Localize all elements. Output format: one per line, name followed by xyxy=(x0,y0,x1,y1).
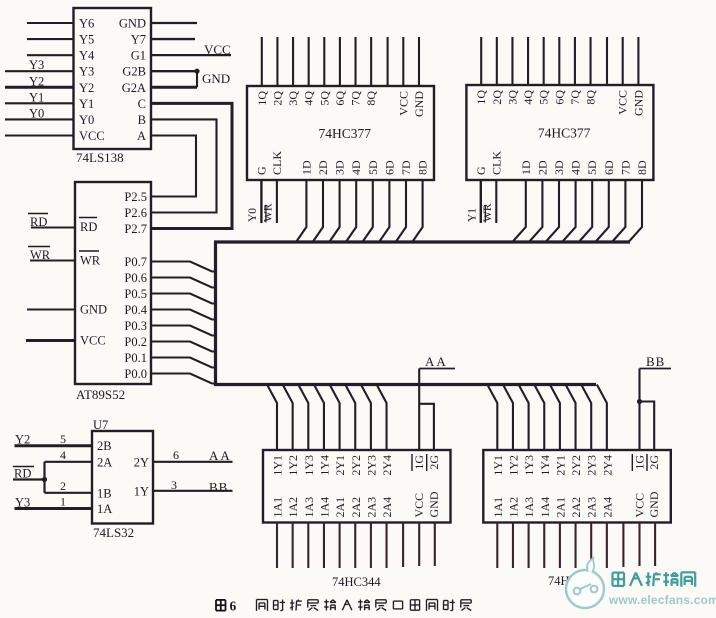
wire 5Q output stub 74HC377-b xyxy=(543,37,545,85)
wire P0.7 to bus xyxy=(151,262,216,272)
wire P0.3 to bus xyxy=(151,326,216,336)
svg-text:G2A: G2A xyxy=(122,81,146,95)
node RD xyxy=(28,214,48,230)
svg-text:2Y3: 2Y3 xyxy=(364,455,378,476)
svg-text:Y1: Y1 xyxy=(466,208,478,222)
svg-text:2A3: 2A3 xyxy=(585,497,599,518)
svg-text:2A1: 2A1 xyxy=(553,497,567,518)
wire 3Q output stub 74HC377-a xyxy=(292,37,294,86)
svg-text:2Y1: 2Y1 xyxy=(553,455,567,476)
svg-text:2: 2 xyxy=(60,479,66,493)
wire P0.5 to bus xyxy=(151,294,216,304)
wire G2B-G2A tie xyxy=(196,71,198,87)
wire GND output stub 74HC377-b xyxy=(637,37,639,85)
wire 4Q output stub 74HC377-b xyxy=(527,37,529,85)
wire WR input xyxy=(30,259,75,261)
svg-text:WR: WR xyxy=(482,203,494,222)
wire 1Y2 from bus 74HC244-b xyxy=(503,385,513,451)
wire VCC stub 74HC244-a xyxy=(418,523,420,567)
svg-text:G: G xyxy=(474,166,488,175)
wire 2A3 stub 74HC244-a xyxy=(370,523,372,569)
svg-text:1A4: 1A4 xyxy=(538,497,552,518)
wire P0.1 to bus xyxy=(151,358,216,368)
node BB at U7 xyxy=(209,480,228,495)
svg-text:VCC: VCC xyxy=(79,129,105,143)
node VCC xyxy=(204,42,231,57)
buffer U6 74HC244 xyxy=(483,450,671,523)
svg-text:74LS32: 74LS32 xyxy=(93,525,134,540)
svg-text:2Q: 2Q xyxy=(270,91,284,106)
svg-text:1Q: 1Q xyxy=(474,90,488,105)
wire 2Y3 from bus 74HC244-a xyxy=(361,385,371,451)
svg-text:2D: 2D xyxy=(316,160,330,175)
wire RD branch vertical xyxy=(43,462,45,493)
wire NC stub 74HC377-b xyxy=(606,37,608,85)
svg-text:4Q: 4Q xyxy=(302,91,316,106)
node Y2 xyxy=(29,74,44,88)
wire 1A1 stub 74HC244-b xyxy=(496,523,498,569)
wire 3D to bus 74HC377-b xyxy=(546,180,559,242)
svg-text:P0.2: P0.2 xyxy=(124,335,147,349)
svg-text:2A1: 2A1 xyxy=(333,497,347,518)
svg-text:3: 3 xyxy=(171,478,177,492)
svg-text:1Y3: 1Y3 xyxy=(302,455,316,476)
svg-text:Y4: Y4 xyxy=(79,49,95,63)
wire 1Y4 from bus 74HC244-b xyxy=(534,385,544,451)
watermark url xyxy=(608,593,716,607)
svg-text:1A1: 1A1 xyxy=(491,497,505,518)
wire 6D to bus 74HC377-a xyxy=(379,180,389,242)
wire G input 74HC377-b xyxy=(480,180,482,223)
label 74HC344 a xyxy=(332,575,381,589)
svg-text:1Y1: 1Y1 xyxy=(491,455,505,476)
wire 2A2 stub 74HC244-b xyxy=(574,523,576,569)
svg-text:1Q: 1Q xyxy=(255,91,269,106)
svg-text:1: 1 xyxy=(60,495,66,509)
wire 2A4 stub 74HC244-b xyxy=(606,523,608,569)
wire 1A1 stub 74HC244-a xyxy=(276,523,278,569)
svg-text:6D: 6D xyxy=(602,160,616,175)
svg-text:Y6: Y6 xyxy=(79,17,94,31)
svg-text:2Y4: 2Y4 xyxy=(380,455,394,476)
svg-text:BB: BB xyxy=(209,480,228,495)
wire 2A1 stub 74HC244-b xyxy=(559,523,561,569)
or-gate U7 74LS32 xyxy=(92,431,153,524)
svg-text:4D: 4D xyxy=(349,160,363,175)
wire 5D to bus 74HC377-b xyxy=(579,180,592,242)
svg-text:Y5: Y5 xyxy=(79,33,94,47)
node Y3 at U7 xyxy=(15,496,30,510)
wire GND pin 74LS138 xyxy=(151,22,197,24)
svg-text:P0.5: P0.5 xyxy=(124,287,147,301)
wire 2Y1 from bus 74HC244-a xyxy=(330,385,340,451)
bus left edge xyxy=(214,242,217,386)
wire 2A1 stub 74HC244-a xyxy=(339,523,341,569)
svg-text:GND: GND xyxy=(202,71,230,86)
svg-text:GND: GND xyxy=(631,90,645,116)
wire 2Y2 from bus 74HC244-a xyxy=(345,385,355,451)
svg-text:Y1: Y1 xyxy=(29,90,44,104)
label 74LS138 xyxy=(76,150,124,165)
wire VCC output stub 74HC377-b xyxy=(622,37,624,85)
svg-text:2A2: 2A2 xyxy=(569,497,583,518)
svg-text:AT89S52: AT89S52 xyxy=(76,387,125,402)
wire 7D to bus 74HC377-b xyxy=(612,180,625,242)
wire Y2 to 2B pin 5 xyxy=(15,444,93,447)
wire 8D to bus 74HC377-b xyxy=(629,180,642,242)
wire Y6 input to 74LS138 xyxy=(27,22,74,24)
svg-text:2A: 2A xyxy=(97,456,112,470)
svg-text:6: 6 xyxy=(230,599,237,614)
wire 2A3 stub 74HC244-b xyxy=(590,523,592,569)
wire 1Y2 from bus 74HC244-a xyxy=(283,385,293,451)
svg-text:AA: AA xyxy=(209,448,232,463)
wire 1A3 stub 74HC244-b xyxy=(528,523,530,569)
svg-text:Y0: Y0 xyxy=(247,208,259,222)
svg-text:3D: 3D xyxy=(333,160,347,175)
node Y2 at U7 xyxy=(15,433,30,447)
wire to 1B pin 2 xyxy=(45,492,93,494)
wire G input 74HC377-a xyxy=(260,180,262,223)
svg-text:P0.3: P0.3 xyxy=(124,319,147,333)
svg-text:3D: 3D xyxy=(552,160,566,175)
svg-text:1Y1: 1Y1 xyxy=(271,455,285,476)
label 74LS32 xyxy=(93,525,134,540)
svg-text:GND: GND xyxy=(119,17,146,31)
node WR on CLK xyxy=(482,203,494,222)
svg-text:1A2: 1A2 xyxy=(506,497,520,518)
wire GND stub 74HC244-b xyxy=(654,523,656,567)
wire VCC AT89S52 xyxy=(26,339,75,342)
wire P0.2 to bus xyxy=(151,342,216,352)
wire B to P2.6 xyxy=(151,119,217,212)
wire 2Y4 from bus 74HC244-a xyxy=(377,385,387,451)
svg-text:2A3: 2A3 xyxy=(364,497,378,518)
wire 6Q output stub 74HC377-b xyxy=(558,37,560,85)
pin number 3 xyxy=(171,478,177,492)
node Y0 on G xyxy=(247,208,259,222)
watermark logo xyxy=(566,557,604,608)
pin number 5 xyxy=(60,432,66,446)
node Y1 xyxy=(29,90,44,104)
wire GND AT89S52 xyxy=(27,308,75,310)
svg-text:8D: 8D xyxy=(635,160,649,175)
svg-text:1Y2: 1Y2 xyxy=(286,455,300,476)
svg-text:2Y3: 2Y3 xyxy=(585,455,599,476)
svg-text:4D: 4D xyxy=(569,160,583,175)
node Y3 xyxy=(29,58,44,72)
wire Y5 input to 74LS138 xyxy=(27,38,74,40)
svg-text:Y3: Y3 xyxy=(29,58,44,72)
svg-text:2Y: 2Y xyxy=(134,456,149,470)
wire BB to 1G xyxy=(637,369,642,451)
wire 2A4 stub 74HC244-a xyxy=(385,523,387,569)
wire 2Y2 from bus 74HC244-b xyxy=(566,385,576,451)
svg-text:7Q: 7Q xyxy=(568,90,582,105)
svg-text:5Q: 5Q xyxy=(537,90,551,105)
svg-text:6D: 6D xyxy=(382,160,396,175)
svg-text:5D: 5D xyxy=(366,160,380,175)
wire G2A xyxy=(151,86,197,89)
wire 2Q output stub 74HC377-a xyxy=(276,37,278,86)
wire RD input xyxy=(31,226,75,228)
svg-text:Y0: Y0 xyxy=(79,113,94,127)
wire 7Q output stub 74HC377-a xyxy=(354,37,356,86)
svg-text:4Q: 4Q xyxy=(521,90,535,105)
wire 2D to bus 74HC377-b xyxy=(529,180,542,242)
wire Y7 pin 74LS138 xyxy=(151,38,195,40)
svg-text:1G: 1G xyxy=(412,455,426,470)
caption 图6 xyxy=(216,599,237,614)
wire NC stub 74HC377-a xyxy=(387,37,389,86)
svg-text:WR: WR xyxy=(262,203,274,222)
wire Y4 input to 74LS138 xyxy=(27,54,74,56)
decoder U1 74LS138 xyxy=(74,8,152,149)
wire 8Q output stub 74HC377-a xyxy=(370,37,372,86)
svg-text:2Y2: 2Y2 xyxy=(569,455,583,476)
svg-text:G2B: G2B xyxy=(122,65,146,79)
svg-text:2A2: 2A2 xyxy=(349,497,363,518)
label 74HC344 b xyxy=(548,574,597,588)
wire 2Y4 from bus 74HC244-b xyxy=(597,385,607,451)
svg-text:74LS138: 74LS138 xyxy=(76,150,124,165)
svg-text:P0.4: P0.4 xyxy=(124,303,147,317)
wire 1Q output stub 74HC377-b xyxy=(480,37,482,85)
wire 7D to bus 74HC377-a xyxy=(396,180,406,242)
svg-text:2B: 2B xyxy=(97,439,112,453)
svg-text:U7: U7 xyxy=(93,418,108,432)
svg-text:VCC: VCC xyxy=(396,91,410,116)
wire 1Y4 from bus 74HC244-a xyxy=(314,385,324,451)
wire 1D to bus 74HC377-b xyxy=(513,180,526,242)
wire AA to 1G xyxy=(418,369,420,451)
svg-text:6Q: 6Q xyxy=(333,91,347,106)
svg-text:1A1: 1A1 xyxy=(271,497,285,518)
wire 2D to bus 74HC377-a xyxy=(313,180,323,242)
wire 4D to bus 74HC377-b xyxy=(563,180,576,242)
svg-text:Y2: Y2 xyxy=(29,74,44,88)
label U7 xyxy=(93,418,108,432)
wire 1Y1 from bus 74HC244-a xyxy=(267,385,277,451)
svg-text:GND: GND xyxy=(647,491,661,517)
svg-text:2A4: 2A4 xyxy=(380,497,394,518)
svg-text:CLK: CLK xyxy=(270,151,284,175)
svg-text:GND: GND xyxy=(427,491,441,517)
svg-text:7D: 7D xyxy=(618,160,632,175)
svg-text:74HC344: 74HC344 xyxy=(332,575,381,589)
node WR xyxy=(28,247,51,263)
node AA at 74HC244-a xyxy=(419,354,455,369)
svg-text:1Y4: 1Y4 xyxy=(317,455,331,476)
wire CLK input 74HC377-a xyxy=(276,180,278,223)
svg-text:7D: 7D xyxy=(399,160,413,175)
wire 2Q output stub 74HC377-b xyxy=(496,37,498,85)
wire 4Q output stub 74HC377-a xyxy=(308,37,310,86)
pin number 4 xyxy=(60,448,66,462)
svg-text:B: B xyxy=(138,113,146,127)
svg-text:6Q: 6Q xyxy=(552,90,566,105)
svg-text:2D: 2D xyxy=(535,160,549,175)
wire AA jog to 2G xyxy=(419,404,434,450)
wire CLK input 74HC377-b xyxy=(495,180,497,223)
wire 1Y1 from bus 74HC244-b xyxy=(487,385,497,451)
wire 1Y3 from bus 74HC244-b xyxy=(519,385,529,451)
wire 5Q output stub 74HC377-a xyxy=(323,37,325,86)
wire NC stub 74HC244-a xyxy=(402,523,404,568)
svg-text:Y0: Y0 xyxy=(29,106,44,120)
svg-text:P2.6: P2.6 xyxy=(124,206,147,220)
register U4 74HC377 xyxy=(466,85,653,180)
node WR on CLK xyxy=(262,203,274,222)
svg-text:1D: 1D xyxy=(299,160,313,175)
svg-text:www.elecfans.com: www.elecfans.com xyxy=(608,593,716,607)
wire 1A3 stub 74HC244-a xyxy=(307,523,309,569)
buffer U5 74HC244 xyxy=(263,450,451,523)
wire 8Q output stub 74HC377-b xyxy=(589,37,591,85)
wire A to P2.5 xyxy=(151,135,196,196)
node BB at 74HC244-b xyxy=(640,354,672,369)
svg-text:AA: AA xyxy=(425,354,448,369)
svg-text:8Q: 8Q xyxy=(584,90,598,105)
svg-text:P0.1: P0.1 xyxy=(124,351,147,365)
wire RD input U7 xyxy=(13,477,47,482)
svg-text:G1: G1 xyxy=(131,49,146,63)
wire VCC output stub 74HC377-a xyxy=(402,37,404,86)
svg-text:RD: RD xyxy=(80,220,97,234)
svg-text:CLK: CLK xyxy=(489,151,503,175)
svg-text:1D: 1D xyxy=(519,160,533,175)
svg-text:2Y1: 2Y1 xyxy=(333,455,347,476)
svg-text:2A4: 2A4 xyxy=(600,497,614,518)
svg-text:1Y4: 1Y4 xyxy=(538,455,552,476)
pin number 6 xyxy=(173,448,179,462)
watermark brand text xyxy=(613,572,696,586)
wire Y3 to 1A pin 1 xyxy=(15,507,93,510)
caption text xyxy=(257,600,472,611)
node Y0 xyxy=(29,106,44,120)
svg-text:BB: BB xyxy=(646,354,665,369)
svg-text:1G: 1G xyxy=(633,455,647,470)
wire P0.4 to bus xyxy=(151,310,216,320)
svg-text:8D: 8D xyxy=(416,160,430,175)
wire 2Y3 from bus 74HC244-b xyxy=(581,385,591,451)
wire 1A2 stub 74HC244-b xyxy=(512,523,514,569)
svg-text:GND: GND xyxy=(412,91,426,117)
svg-text:4: 4 xyxy=(60,448,66,462)
wire 5D to bus 74HC377-a xyxy=(363,180,373,242)
wire Y0 input to 74LS138 xyxy=(5,118,74,120)
svg-text:6: 6 xyxy=(173,448,179,462)
svg-text:Y2: Y2 xyxy=(79,81,94,95)
wire VCC stub 74HC244-b xyxy=(638,523,640,567)
svg-text:2G: 2G xyxy=(427,455,441,470)
svg-text:VCC: VCC xyxy=(204,42,231,57)
svg-text:VCC: VCC xyxy=(633,493,647,518)
svg-text:2Y2: 2Y2 xyxy=(349,455,363,476)
svg-text:1Y: 1Y xyxy=(134,485,149,499)
wire 8D to bus 74HC377-a xyxy=(413,180,423,242)
svg-text:1Y3: 1Y3 xyxy=(522,455,536,476)
wire Y1 input to 74LS138 xyxy=(5,102,74,104)
wire 3Q output stub 74HC377-b xyxy=(511,37,513,85)
svg-text:1B: 1B xyxy=(97,487,112,501)
svg-text:WR: WR xyxy=(80,254,101,268)
wire to 2A pin 4 xyxy=(45,461,93,463)
svg-text:5Q: 5Q xyxy=(317,91,331,106)
wire G1 to VCC xyxy=(151,54,231,56)
wire BB jog to 2G xyxy=(640,402,655,451)
wire GND stub 74HC244-a xyxy=(434,523,436,567)
wire 1Y3 from bus 74HC244-a xyxy=(298,385,308,451)
svg-text:Y3: Y3 xyxy=(79,65,94,79)
svg-text:3Q: 3Q xyxy=(505,90,519,105)
wire 1A2 stub 74HC244-a xyxy=(292,523,294,569)
svg-text:1A2: 1A2 xyxy=(286,497,300,518)
svg-text:P2.7: P2.7 xyxy=(124,222,147,236)
svg-text:3Q: 3Q xyxy=(286,91,300,106)
svg-text:1A4: 1A4 xyxy=(317,497,331,518)
bus bottom rail xyxy=(214,383,596,386)
svg-text:P2.5: P2.5 xyxy=(124,190,147,204)
svg-text:5: 5 xyxy=(60,432,66,446)
wire 2Y output to AA xyxy=(153,461,233,463)
wire 1D to bus 74HC377-a xyxy=(296,180,306,242)
svg-text:74HC377: 74HC377 xyxy=(319,126,372,141)
wire 2Y1 from bus 74HC244-b xyxy=(550,385,560,451)
svg-text:1A: 1A xyxy=(97,502,112,516)
pin number 2 xyxy=(60,479,66,493)
svg-text:1A3: 1A3 xyxy=(522,497,536,518)
svg-text:7Q: 7Q xyxy=(349,91,363,106)
node Y1 on G xyxy=(466,208,478,222)
wire VCC input to 74LS138 xyxy=(5,134,74,136)
wire 6Q output stub 74HC377-a xyxy=(339,37,341,86)
node RD at U7 xyxy=(13,467,34,481)
svg-text:A: A xyxy=(137,129,146,143)
wire NC stub 74HC244-b xyxy=(622,523,624,568)
wire G2B xyxy=(151,69,200,74)
wire GND output stub 74HC377-a xyxy=(418,37,420,86)
wire Y3 input to 74LS138 xyxy=(5,70,74,72)
svg-text:74HC377: 74HC377 xyxy=(538,126,591,141)
wire 6D to bus 74HC377-b xyxy=(596,180,609,242)
wire Y2 input to 74LS138 xyxy=(5,86,74,89)
svg-text:VCC: VCC xyxy=(80,334,106,348)
wire P0.6 to bus xyxy=(151,278,216,288)
svg-text:P0.6: P0.6 xyxy=(124,271,147,285)
svg-text:2G: 2G xyxy=(647,455,661,470)
wire 1Q output stub 74HC377-a xyxy=(261,37,263,86)
svg-text:GND: GND xyxy=(80,303,107,317)
wire 2A2 stub 74HC244-a xyxy=(354,523,356,569)
svg-text:C: C xyxy=(138,97,146,111)
svg-text:2Q: 2Q xyxy=(490,90,504,105)
wire 1A4 stub 74HC244-b xyxy=(543,523,545,569)
svg-text:VCC: VCC xyxy=(616,90,630,115)
wire 4D to bus 74HC377-a xyxy=(346,180,356,242)
register U3 74HC377 xyxy=(247,86,434,180)
svg-text:2Y4: 2Y4 xyxy=(600,455,614,476)
bus top rail xyxy=(214,240,630,243)
svg-text:P0.7: P0.7 xyxy=(124,255,147,269)
wire P0.0 to bus xyxy=(151,374,216,384)
svg-text:1A3: 1A3 xyxy=(302,497,316,518)
wire 1Y output to BB xyxy=(153,490,233,492)
svg-text:8Q: 8Q xyxy=(364,91,378,106)
wire 3D to bus 74HC377-a xyxy=(330,180,340,242)
svg-text:Y1: Y1 xyxy=(79,97,94,111)
svg-text:P0.0: P0.0 xyxy=(124,367,147,381)
